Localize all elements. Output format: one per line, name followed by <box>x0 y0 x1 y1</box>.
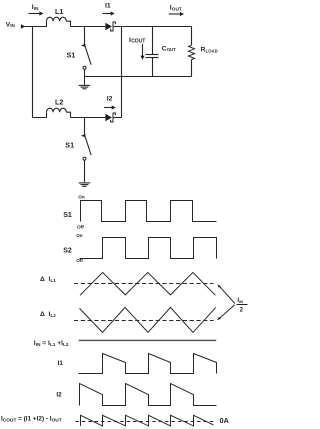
svg-text:Δ: Δ <box>40 311 45 318</box>
svg-text:OUT: OUT <box>172 7 182 12</box>
svg-text:On: On <box>78 194 85 199</box>
svg-text:Δ: Δ <box>40 276 45 283</box>
svg-text:L2: L2 <box>51 313 57 318</box>
svg-text:S1: S1 <box>65 141 74 150</box>
svg-text:0A: 0A <box>220 416 229 425</box>
svg-text:IN: IN <box>10 23 15 28</box>
svg-text:S1: S1 <box>63 212 72 219</box>
svg-text:OUT: OUT <box>167 47 176 52</box>
svg-text:L1: L1 <box>51 278 57 283</box>
svg-text:S2: S2 <box>63 248 72 255</box>
svg-text:On: On <box>76 233 83 238</box>
svg-text:L2: L2 <box>55 98 63 107</box>
svg-text:IN: IN <box>239 299 243 304</box>
svg-text:I1: I1 <box>58 360 64 367</box>
svg-text:S1: S1 <box>67 51 76 60</box>
svg-text:I2: I2 <box>56 392 62 399</box>
svg-text:LOAD: LOAD <box>206 49 218 54</box>
svg-text:COUT: COUT <box>131 39 145 45</box>
svg-text:I2: I2 <box>107 95 113 102</box>
svg-text:Off: Off <box>76 258 83 263</box>
svg-text:L1: L1 <box>55 7 63 16</box>
svg-text:Off: Off <box>77 225 84 230</box>
svg-text:I1: I1 <box>105 2 111 9</box>
svg-text:IN: IN <box>34 6 39 11</box>
